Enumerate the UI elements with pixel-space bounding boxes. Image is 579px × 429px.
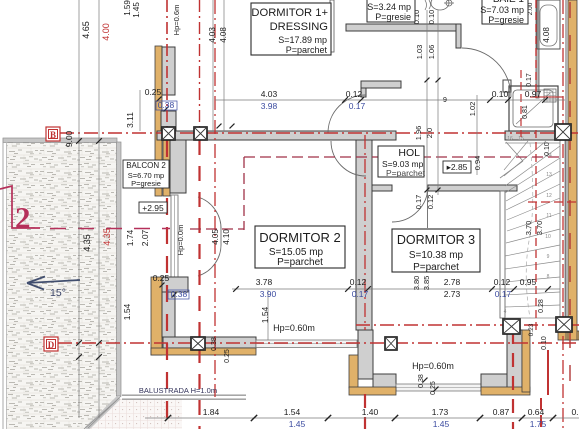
- svg-text:12: 12: [546, 193, 552, 199]
- svg-text:2.07: 2.07: [140, 229, 150, 246]
- svg-text:0.81: 0.81: [522, 105, 529, 119]
- svg-text:Hp=0.0m: Hp=0.0m: [176, 225, 185, 256]
- svg-text:0.23: 0.23: [528, 323, 535, 336]
- svg-text:0.12: 0.12: [346, 89, 363, 99]
- svg-text:1.03: 1.03: [415, 45, 424, 60]
- svg-text:2: 2: [15, 200, 31, 235]
- svg-text:0.94: 0.94: [473, 156, 482, 171]
- svg-text:0.10: 0.10: [492, 89, 509, 99]
- svg-text:4.10: 4.10: [222, 229, 231, 245]
- svg-text:1.96: 1.96: [414, 126, 423, 141]
- svg-text:1.45: 1.45: [433, 419, 450, 429]
- svg-text:P=gresie: P=gresie: [375, 12, 411, 22]
- svg-text:0.25: 0.25: [153, 273, 170, 283]
- svg-text:0.64: 0.64: [528, 407, 545, 417]
- svg-text:0.28: 0.28: [538, 299, 545, 313]
- svg-text:▸2.85: ▸2.85: [447, 162, 468, 172]
- svg-text:1.74: 1.74: [125, 229, 135, 246]
- svg-text:9.00: 9.00: [64, 130, 74, 147]
- svg-text:1.02: 1.02: [468, 102, 477, 117]
- svg-text:4.35: 4.35: [82, 234, 92, 252]
- svg-text:0.25: 0.25: [145, 87, 162, 97]
- svg-text:0.97: 0.97: [525, 89, 542, 99]
- svg-text:4.00: 4.00: [101, 23, 111, 41]
- svg-text:3.80: 3.80: [412, 276, 421, 291]
- svg-text:Hp=0.60m: Hp=0.60m: [412, 361, 454, 371]
- svg-text:0.10: 0.10: [541, 336, 548, 350]
- svg-text:1.40: 1.40: [362, 407, 379, 417]
- svg-text:S=17.89 mp: S=17.89 mp: [278, 35, 327, 45]
- svg-text:9: 9: [443, 97, 447, 104]
- svg-text:0.25: 0.25: [224, 349, 231, 363]
- svg-text:0.10: 0.10: [544, 142, 551, 156]
- svg-text:0.17: 0.17: [352, 289, 369, 299]
- svg-text:S=10.38 mp: S=10.38 mp: [409, 250, 464, 261]
- svg-text:4.08: 4.08: [219, 27, 228, 43]
- svg-text:1.45: 1.45: [289, 419, 306, 429]
- svg-text:9: 9: [547, 254, 550, 260]
- svg-text:15°: 15°: [50, 287, 66, 299]
- svg-text:BALCON 2: BALCON 2: [126, 161, 166, 170]
- svg-text:1.06: 1.06: [427, 45, 436, 60]
- svg-text:4.08: 4.08: [542, 27, 551, 43]
- svg-text:P=gresie: P=gresie: [488, 15, 524, 25]
- svg-text:16: 16: [507, 136, 513, 142]
- svg-text:2.78: 2.78: [444, 277, 461, 287]
- svg-text:0.25: 0.25: [430, 381, 437, 395]
- svg-text:4.03: 4.03: [208, 27, 217, 43]
- svg-text:3.98: 3.98: [261, 101, 278, 111]
- svg-text:0.: 0.: [571, 407, 578, 417]
- svg-text:0.38: 0.38: [158, 100, 175, 110]
- svg-text:3.70: 3.70: [524, 221, 533, 236]
- svg-text:BALUSTRADA H=1.0m: BALUSTRADA H=1.0m: [139, 386, 217, 395]
- svg-text:0.17: 0.17: [414, 195, 423, 210]
- svg-text:Hp=0.6m: Hp=0.6m: [172, 5, 181, 36]
- svg-text:3.78: 3.78: [256, 277, 273, 287]
- svg-text:DORMITOR 2: DORMITOR 2: [259, 230, 340, 245]
- svg-text:0.10: 0.10: [427, 10, 436, 25]
- svg-text:+2.95: +2.95: [142, 203, 164, 213]
- svg-text:2.73: 2.73: [444, 289, 461, 299]
- svg-text:0.17: 0.17: [495, 289, 512, 299]
- svg-text:1.45: 1.45: [132, 2, 141, 18]
- svg-text:DORMITOR 1+: DORMITOR 1+: [251, 7, 328, 19]
- svg-text:B: B: [50, 130, 56, 140]
- svg-text:Hp=0.60m: Hp=0.60m: [273, 323, 315, 333]
- svg-text:S=3.24 mp: S=3.24 mp: [367, 2, 411, 12]
- svg-text:0.12: 0.12: [426, 195, 435, 210]
- svg-text:3.90: 3.90: [260, 289, 277, 299]
- svg-text:DORMITOR 3: DORMITOR 3: [397, 233, 475, 247]
- svg-text:4.35: 4.35: [102, 228, 112, 246]
- svg-text:P=gresie: P=gresie: [131, 179, 161, 188]
- svg-text:4.03: 4.03: [261, 89, 278, 99]
- svg-text:S=7.03 mp: S=7.03 mp: [480, 5, 524, 15]
- svg-text:0.38: 0.38: [211, 337, 218, 351]
- svg-text:0.12: 0.12: [350, 277, 367, 287]
- svg-text:4.05: 4.05: [211, 229, 220, 245]
- svg-text:1.54: 1.54: [260, 306, 270, 323]
- svg-text:0.38: 0.38: [418, 374, 425, 388]
- svg-text:3.70: 3.70: [535, 221, 544, 236]
- svg-text:4.65: 4.65: [81, 21, 91, 39]
- svg-text:P=parchet: P=parchet: [277, 257, 323, 268]
- svg-text:1.54: 1.54: [122, 303, 132, 320]
- svg-text:P=parchet: P=parchet: [413, 262, 459, 273]
- svg-text:1.73: 1.73: [432, 407, 449, 417]
- svg-text:2.0: 2.0: [425, 128, 434, 138]
- svg-text:1.59: 1.59: [123, 0, 132, 16]
- svg-text:1.75: 1.75: [530, 419, 547, 429]
- svg-text:3.11: 3.11: [125, 112, 135, 128]
- svg-text:P=parchet: P=parchet: [386, 168, 426, 178]
- svg-text:1.84: 1.84: [203, 407, 220, 417]
- svg-text:D: D: [48, 340, 55, 350]
- svg-text:0.95: 0.95: [520, 277, 537, 287]
- svg-text:4: 4: [504, 309, 507, 315]
- svg-text:11: 11: [546, 213, 551, 219]
- svg-text:10: 10: [545, 234, 551, 240]
- svg-text:13: 13: [546, 172, 552, 178]
- svg-text:0.38: 0.38: [171, 289, 188, 299]
- svg-text:1.54: 1.54: [284, 407, 301, 417]
- svg-text:0.12: 0.12: [494, 277, 511, 287]
- svg-text:8: 8: [547, 274, 550, 280]
- svg-text:0.17: 0.17: [349, 101, 366, 111]
- svg-text:P=parchet: P=parchet: [286, 45, 328, 55]
- svg-text:HOL: HOL: [398, 147, 420, 159]
- svg-text:0.17: 0.17: [526, 73, 533, 87]
- svg-text:DRESSING: DRESSING: [270, 21, 328, 33]
- svg-text:3.85: 3.85: [422, 276, 431, 291]
- svg-text:0.87: 0.87: [493, 407, 510, 417]
